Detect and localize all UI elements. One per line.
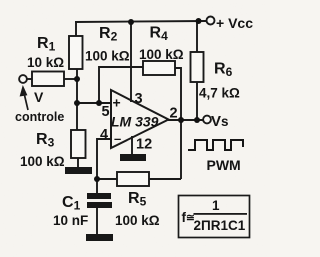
wire: R5 right to output column [149, 178, 181, 180]
wire: R6 bottom to output node [196, 82, 198, 120]
svg-text:controle: controle [15, 110, 64, 124]
svg-text:+ Vcc: + Vcc [216, 15, 253, 31]
wire: terminal to R1 [27, 78, 32, 80]
wire: pin12 to ground [131, 136, 133, 155]
node: +input junction [74, 100, 80, 106]
svg-text:5: 5 [102, 104, 110, 120]
svg-text:4,7 kΩ: 4,7 kΩ [199, 86, 240, 101]
wire: output column down [180, 120, 182, 179]
node: output junction [178, 117, 184, 123]
node: R6 output junction [194, 117, 200, 123]
svg-text:+: + [113, 95, 121, 111]
ground (below op-amp pin 12) [120, 154, 146, 161]
resistor R4 [143, 61, 175, 75]
wire: pin4 to RC node [97, 139, 111, 179]
wire: R4 left branch [99, 67, 143, 103]
svg-text:–: – [114, 131, 121, 146]
resistor R2 [69, 36, 83, 69]
resistor R6 [191, 52, 204, 82]
wire: R4 right to output column [175, 68, 181, 122]
svg-text:3: 3 [135, 91, 143, 107]
svg-text:100 kΩ: 100 kΩ [20, 154, 65, 169]
svg-text:100 kΩ: 100 kΩ [115, 213, 160, 228]
svg-text:V: V [34, 89, 44, 105]
node: R1 junction on input column [74, 76, 80, 82]
svg-text:LM 339: LM 339 [111, 114, 159, 130]
svg-text:12: 12 [136, 137, 152, 153]
svg-text:Vs: Vs [211, 113, 229, 130]
svg-text:100 kΩ: 100 kΩ [85, 49, 130, 64]
ground (below C1) [86, 234, 113, 241]
wire: RC node to C1 [96, 179, 98, 193]
terminal: Vs output [203, 116, 211, 124]
wire: +Vcc top rail [75, 21, 206, 22]
wire: +input node to pin5 [77, 102, 111, 104]
formula fraction bar [194, 213, 248, 215]
PWM waveform icon [188, 140, 243, 150]
op-amp U1 LM339 [111, 90, 169, 148]
terminal: V controle input [19, 75, 27, 83]
svg-text:100 kΩ: 100 kΩ [139, 47, 184, 62]
wire: R2 top to rail [75, 22, 77, 36]
formula box [179, 196, 250, 238]
resistor R1 [32, 72, 64, 87]
wire: R1 to input column [64, 78, 77, 80]
svg-text:PWM: PWM [207, 157, 241, 173]
svg-text:10 nF: 10 nF [53, 213, 88, 228]
node: R4 branch junction [96, 100, 102, 106]
wire: op-amp output to Vs terminal [168, 119, 203, 121]
wire: R3 bottom to ground [77, 158, 79, 168]
node: rail junction to pin3 [128, 19, 134, 25]
node: rail junction to R6 [196, 18, 202, 24]
capacitor C1 plate bottom [87, 202, 112, 208]
resistor R5 [117, 172, 149, 186]
svg-text:10 kΩ: 10 kΩ [27, 55, 64, 70]
svg-text:4: 4 [100, 127, 108, 143]
capacitor C1 plate top [87, 193, 111, 199]
wire: C1 bottom to ground [96, 208, 98, 234]
svg-text:2: 2 [170, 106, 178, 122]
wire: RC node to R5 [97, 178, 117, 180]
node: RC junction [94, 176, 100, 182]
terminal: +Vcc [207, 17, 215, 25]
svg-text:2ΠR1C1: 2ΠR1C1 [194, 218, 246, 233]
wire: pin3 to Vcc rail [130, 22, 132, 102]
wire: R2 bottom to R3 top (input column) [76, 69, 78, 130]
arrow: V controle pointer [24, 93, 28, 110]
wire: R6 top to rail [196, 21, 198, 52]
svg-text:1: 1 [212, 198, 220, 213]
ground (below R3) [65, 167, 92, 174]
resistor R3 [71, 130, 86, 158]
